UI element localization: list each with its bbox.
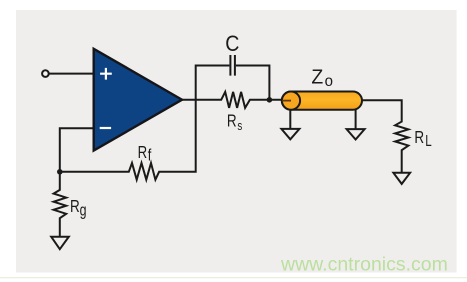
svg-text:R: R (227, 112, 237, 131)
svg-text:Z: Z (311, 66, 323, 88)
svg-text:g: g (80, 202, 87, 220)
svg-text:s: s (237, 120, 242, 134)
svg-text:R: R (70, 197, 80, 216)
svg-text:L: L (425, 133, 432, 150)
svg-text:C: C (225, 32, 239, 57)
svg-text:www.cntronics.com: www.cntronics.com (280, 254, 448, 276)
svg-text:R: R (414, 128, 424, 147)
svg-text:o: o (325, 73, 333, 90)
svg-text:R: R (138, 143, 148, 162)
